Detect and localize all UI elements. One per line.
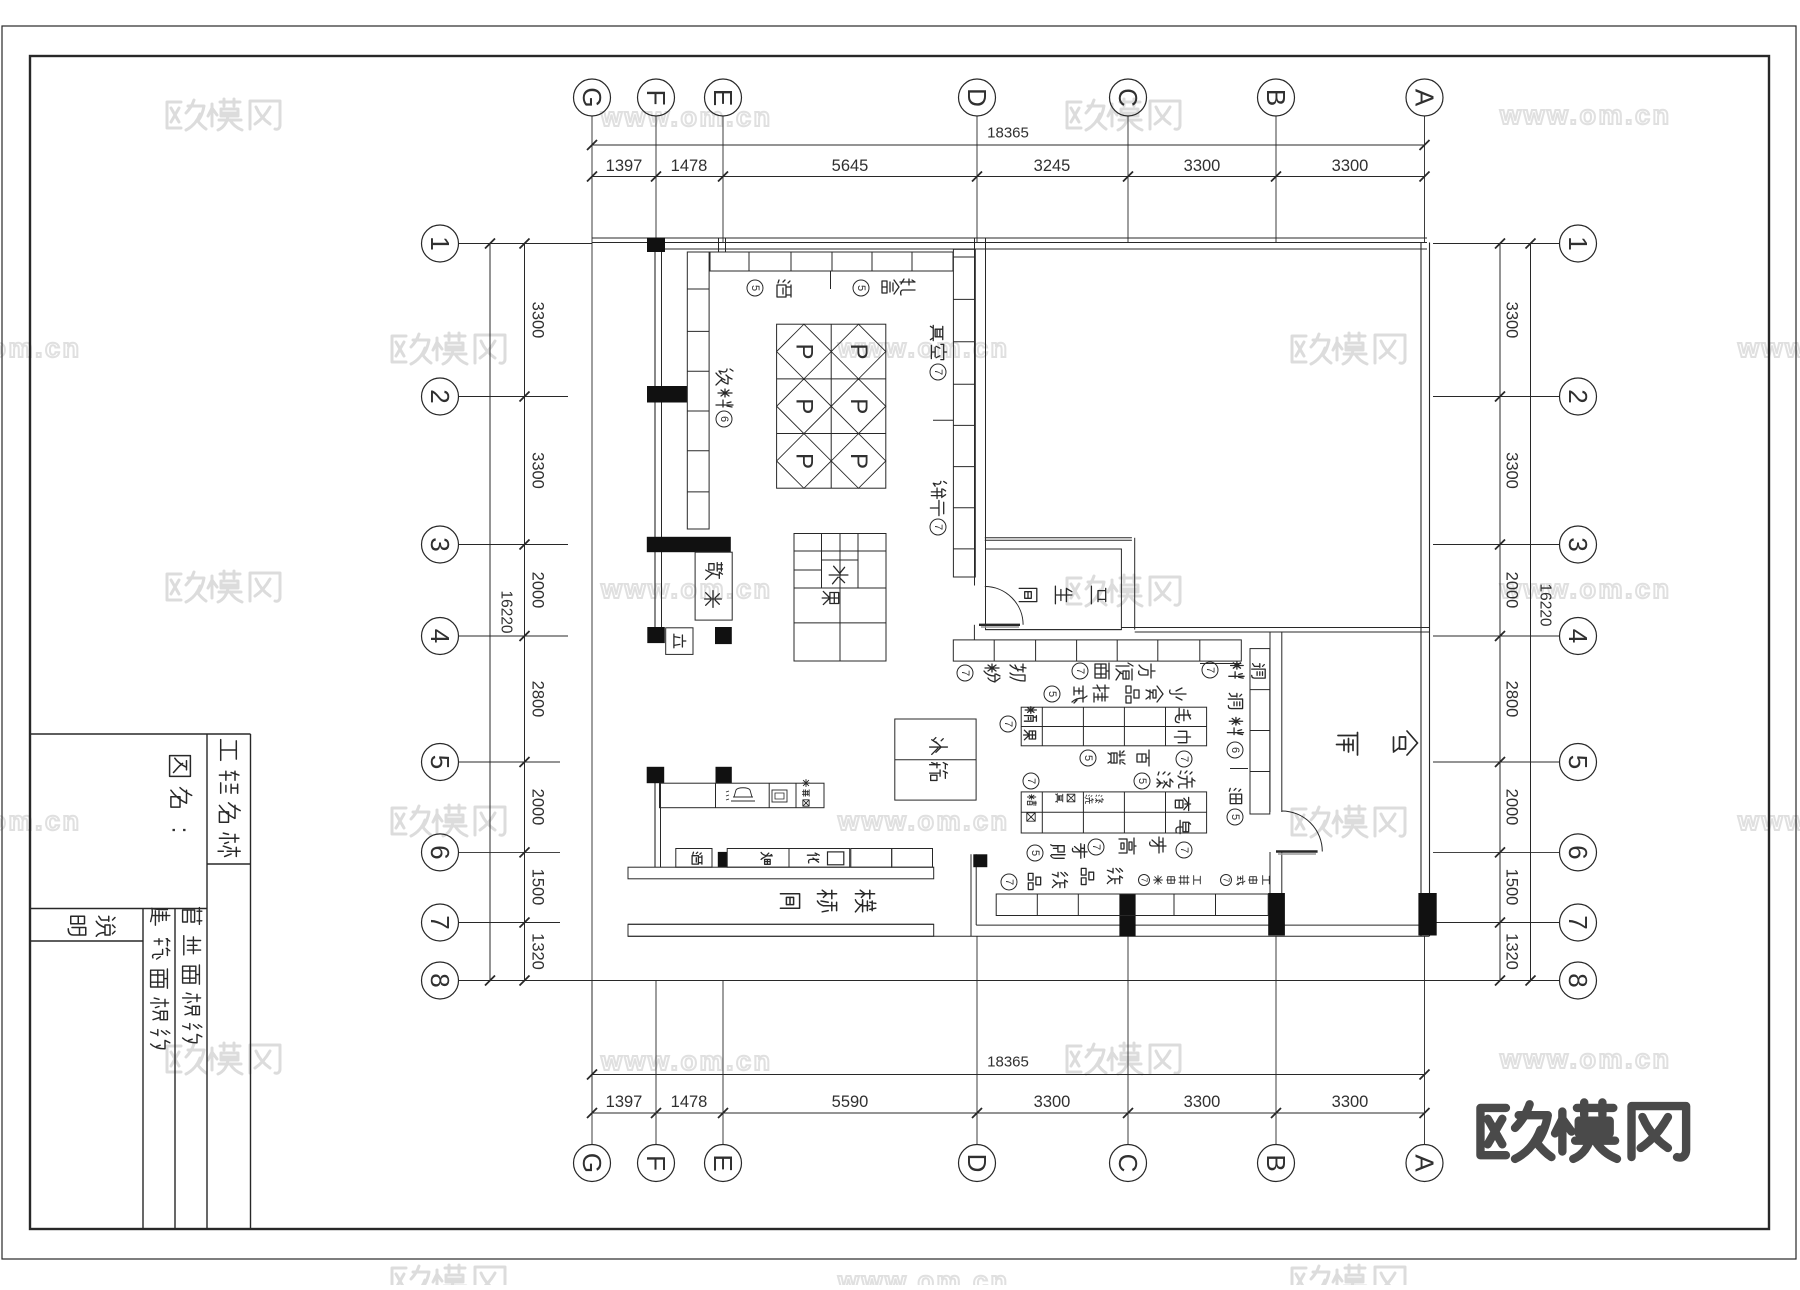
tiny bottom label group 1: [1139, 875, 1150, 886]
svg-text:16220: 16220: [498, 590, 515, 633]
wall at grid D (top-mid vertical): [974, 238, 976, 586]
svg-text:5: 5: [1029, 850, 1041, 856]
svg-text:3300: 3300: [1332, 157, 1369, 175]
svg-text:5645: 5645: [832, 157, 869, 175]
svg-text:4: 4: [425, 629, 455, 643]
svg-text:18365: 18365: [987, 1054, 1029, 1071]
svg-text:1397: 1397: [606, 1093, 643, 1111]
bottom wall upper line left part (stair bar 2 top): [628, 923, 934, 925]
label nai-fen-7: [957, 665, 973, 681]
shuoming cell bottom line: [30, 940, 143, 942]
column at grid A on bottom wall: [1418, 893, 1436, 936]
li box (upright cooler): [666, 628, 693, 655]
separator dash near spice labels: [1230, 768, 1248, 770]
svg-text:6: 6: [425, 845, 455, 859]
watermark row 6 (clipped at page bottom): [392, 1265, 505, 1290]
svg-text:3245: 3245: [1034, 157, 1071, 175]
grid bubble 4 right: [1560, 618, 1597, 655]
column at F grid on top wall: [647, 238, 665, 253]
column pair left at grid 4 - west: [647, 627, 665, 643]
fridge block: [895, 719, 976, 800]
svg-text:3: 3: [425, 537, 455, 551]
label yin-liao-6: [716, 369, 733, 385]
label li-he-5 top: [900, 279, 915, 295]
svg-text:7: 7: [1002, 721, 1014, 727]
bathroom inner bottom line: [985, 629, 1121, 631]
grid bubble 4 left: [422, 618, 459, 655]
extra circled 7 near gondola B: [1023, 773, 1039, 789]
grid bubble G top: [574, 79, 611, 116]
svg-text:2800: 2800: [1503, 681, 1521, 718]
grid bubble B top: [1258, 79, 1295, 116]
svg-text:www.om.cn: www.om.cn: [1499, 1044, 1672, 1074]
grid bubble E bottom: [705, 1145, 742, 1182]
grid line C bottom extension: [1127, 936, 1129, 1144]
svg-text:P: P: [790, 453, 817, 469]
bathroom door swing arc: [985, 587, 1023, 625]
svg-text:1: 1: [425, 236, 455, 250]
label tang-guo-7: [1024, 707, 1036, 721]
label xi-di-5: [1134, 773, 1150, 789]
bathroom door leaf: [979, 624, 1020, 626]
svg-text:C: C: [1113, 1154, 1143, 1173]
title block vertical line x=207: [206, 734, 208, 1229]
counter lower box 3: [851, 849, 892, 868]
svg-text:D: D: [962, 88, 992, 107]
bathroom door jamb step: [973, 625, 975, 640]
svg-text:2000: 2000: [529, 572, 547, 609]
grid line 6 right extension: [1433, 851, 1560, 853]
svg-text:3300: 3300: [1503, 302, 1521, 339]
title text shuo-ming (notes): [96, 916, 115, 936]
svg-text:5: 5: [1563, 755, 1593, 769]
grid line 8 right extension: [1433, 980, 1560, 982]
grid line 3 left extension: [459, 544, 569, 546]
stair step horizontal jog: [976, 924, 996, 926]
label lou-ti-jian (stairwell): [780, 894, 799, 908]
svg-text:7: 7: [1563, 915, 1593, 929]
svg-text:P: P: [790, 398, 817, 414]
label zhi-pin group 2: [1081, 868, 1093, 884]
grid line D top extension: [976, 116, 978, 243]
label xiao-shi-pin: [1126, 686, 1139, 703]
svg-text:3300: 3300: [529, 452, 547, 489]
svg-text:3300: 3300: [1332, 1093, 1369, 1111]
svg-text:5: 5: [1229, 814, 1241, 820]
svg-text:7: 7: [1204, 667, 1216, 673]
shuoming cell top line: [30, 908, 207, 910]
svg-text:1500: 1500: [529, 869, 547, 906]
grid line F top extension: [655, 116, 657, 243]
grid line 3 right extension: [1433, 544, 1560, 546]
svg-text:7: 7: [1090, 844, 1102, 850]
label ya-shua-5: [1027, 845, 1043, 861]
grid bubble 6 left: [422, 834, 459, 871]
counter lower box 1: [676, 849, 712, 868]
label you-5 vertical: [1229, 788, 1241, 803]
grid line 1 left extension: [459, 243, 593, 245]
svg-text:5: 5: [749, 285, 761, 291]
svg-text:P: P: [845, 398, 872, 414]
grid bubble F bottom: [638, 1145, 675, 1182]
tiny labels inside gondola B cells: [1027, 795, 1036, 806]
svg-text:www.om.cn: www.om.cn: [1499, 100, 1672, 130]
svg-text:5: 5: [1082, 755, 1094, 761]
grid line F bottom extension: [655, 980, 657, 1144]
tiny bottom label group 2: [1221, 875, 1232, 886]
mid shelf row below bathroom: [953, 640, 1241, 661]
grid bubble 5 left: [422, 744, 459, 781]
svg-text:2000: 2000: [529, 789, 547, 826]
label bing-gan-7: [931, 481, 946, 498]
stair bar upper: [628, 867, 934, 879]
title block cell line under gongchengmingcheng: [207, 863, 251, 865]
li box label: [674, 634, 686, 648]
grid line 2 left extension: [459, 396, 569, 398]
warehouse left wall upper segment: [1269, 632, 1271, 812]
svg-text:P: P: [790, 344, 817, 360]
bathroom inner wall rectangle: [986, 549, 1122, 630]
svg-text:6: 6: [1563, 845, 1593, 859]
lip line under right end of mid row: [1200, 663, 1241, 665]
svg-text:F: F: [641, 1155, 671, 1171]
svg-text:F: F: [641, 90, 671, 106]
small box icon in counter: [772, 790, 787, 802]
fridge label bing-xiang: [930, 738, 948, 755]
right wall (grid A): [1420, 243, 1422, 937]
title text tu-ming (drawing name): [170, 756, 191, 777]
svg-text:7: 7: [1178, 756, 1190, 762]
grid line 4 left extension: [459, 635, 569, 637]
grid bubble 6 right: [1560, 834, 1597, 871]
top segment dimension line: [592, 176, 1425, 178]
column at grid B on bottom wall: [1268, 893, 1285, 936]
counter lower label yan: [761, 852, 772, 864]
column pair left at grid 4 - east: [715, 627, 732, 644]
column at checkout east: [716, 767, 732, 783]
label fang-bian-mian-7: [1072, 663, 1088, 679]
svg-text:7: 7: [1178, 847, 1190, 853]
gondola block B: [1021, 792, 1206, 833]
svg-text:E: E: [708, 89, 738, 106]
grid line D bottom extension: [976, 936, 978, 1144]
label wei-sheng-jian (bathroom): [1019, 588, 1037, 601]
title text yingye-mianji-yue (business area): [183, 908, 202, 925]
grid bubble 5 right: [1560, 744, 1597, 781]
bathroom right wall outer line: [1134, 538, 1136, 630]
svg-text:4: 4: [1563, 629, 1593, 643]
svg-text:C: C: [1113, 88, 1143, 107]
svg-text:www.om.cn: www.om.cn: [837, 1266, 1010, 1285]
label cang-ku (warehouse): [1337, 733, 1358, 756]
svg-text:5: 5: [855, 285, 867, 291]
top wall inner line: [647, 248, 1427, 250]
grid line 4 right extension: [1433, 635, 1560, 637]
svg-text:www.om.cn: www.om.cn: [0, 333, 82, 363]
grid bubble A top: [1406, 79, 1443, 116]
svg-text:A: A: [1410, 1154, 1440, 1172]
svg-text:E: E: [708, 1154, 738, 1171]
stair bar lower: [628, 924, 934, 936]
grid 8 long horizontal line: [459, 980, 1531, 982]
svg-text:7: 7: [1025, 778, 1037, 784]
svg-text:2000: 2000: [1503, 572, 1521, 609]
svg-text:1: 1: [1563, 236, 1593, 250]
grid bubble A bottom: [1406, 1145, 1443, 1182]
svg-text:B: B: [1261, 1154, 1291, 1171]
column at checkout west: [647, 767, 665, 783]
svg-text:5590: 5590: [832, 1093, 869, 1111]
left segment dimension line: [524, 244, 526, 981]
svg-text:7: 7: [1003, 879, 1015, 885]
grid line B bottom extension: [1275, 936, 1277, 1144]
svg-text:1320: 1320: [529, 933, 547, 970]
svg-text:7: 7: [932, 524, 944, 530]
grid bubble 7 right: [1560, 904, 1597, 941]
gondola block A: [1021, 707, 1206, 746]
watermark row 3: [167, 571, 280, 602]
grid bubble E top: [705, 79, 742, 116]
svg-text:www.om.cn: www.om.cn: [837, 806, 1010, 836]
grid line 6 left extension: [459, 851, 561, 853]
bottom shelf row (paper goods): [996, 894, 1268, 916]
grid bubble 3 right: [1560, 526, 1597, 563]
grid line E top extension: [722, 116, 724, 243]
top wall middle line: [592, 242, 1427, 244]
column at stair step: [973, 854, 987, 867]
top wall outer line: [592, 237, 1427, 239]
grid G long vertical line: [591, 243, 593, 1113]
svg-text:7: 7: [932, 369, 944, 375]
svg-text:G: G: [577, 1153, 607, 1173]
svg-text:8: 8: [425, 973, 455, 987]
svg-text:2: 2: [1563, 389, 1593, 403]
short divider drop at top shelf: [830, 271, 832, 289]
svg-text:P: P: [845, 344, 872, 360]
bottom total dimension line 18365: [592, 1074, 1425, 1076]
grid line E bottom extension: [722, 980, 724, 1144]
grid line A bottom extension: [1424, 936, 1426, 1144]
watermark row 1: [167, 99, 280, 130]
title block vertical line x=143: [142, 909, 144, 1230]
right total dimension line 16220: [1530, 244, 1532, 981]
svg-text:3300: 3300: [1184, 157, 1221, 175]
counter lower box 4: [892, 849, 933, 868]
small column in counter row: [718, 852, 727, 867]
stair step wall at grid D: [970, 854, 972, 936]
label tiao-liao-7 horizontal: [1202, 662, 1218, 678]
grid bubble 8 right: [1560, 962, 1597, 999]
grid line G bottom extension: [591, 980, 593, 1144]
svg-text:P: P: [845, 453, 872, 469]
top total dimension line 18365: [592, 144, 1425, 146]
grid bubble 8 left: [422, 962, 459, 999]
svg-text:3300: 3300: [1034, 1093, 1071, 1111]
svg-text:7: 7: [1222, 878, 1231, 883]
svg-text:5: 5: [1136, 778, 1148, 784]
grid line B top extension: [1275, 116, 1277, 243]
svg-text:3: 3: [1563, 537, 1593, 551]
label zhen-kong-7: [930, 325, 942, 340]
svg-text:6: 6: [718, 416, 730, 422]
svg-text:7: 7: [1074, 668, 1086, 674]
tiny vertical text on counter: [802, 779, 809, 786]
svg-text:www.om.cn: www.om.cn: [600, 574, 773, 604]
grid bubble F top: [638, 79, 675, 116]
grid line 7 right extension: [1433, 922, 1560, 924]
title block top line: [30, 733, 251, 735]
svg-text:www.om.cn: www.om.cn: [0, 806, 82, 836]
counter lower box 2: [727, 849, 850, 868]
svg-text:16220: 16220: [1537, 583, 1554, 626]
warehouse top wall: [1121, 627, 1429, 629]
svg-text:A: A: [1410, 89, 1440, 107]
title block vertical line x=175: [174, 909, 176, 1230]
grid bubble C bottom: [1110, 1145, 1147, 1182]
grid bubble G bottom: [574, 1145, 611, 1182]
grid bubble 1 right: [1560, 225, 1597, 262]
grid bubble 2 left: [422, 378, 459, 415]
grid line C top extension: [1127, 116, 1129, 243]
right segment dimension line: [1499, 244, 1501, 981]
svg-text:7: 7: [1140, 878, 1149, 883]
small square box in counter: [828, 852, 844, 865]
counter lower label hua: [807, 853, 819, 863]
left shelf strip along F wall: [687, 252, 709, 529]
left wall (grid F) lower segment: [654, 783, 656, 867]
grid bubble B bottom: [1258, 1145, 1295, 1182]
watermark row 5: [167, 1043, 280, 1074]
grid line A top extension: [1424, 116, 1426, 243]
grid line 2 right extension: [1433, 396, 1560, 398]
bottom wall of plan (south): [996, 924, 1430, 926]
svg-text:5: 5: [1046, 691, 1058, 697]
column on left wall at grid 2: [647, 386, 687, 403]
svg-text:G: G: [577, 87, 607, 107]
svg-text:B: B: [1261, 89, 1291, 106]
label ya-gao-7: [1088, 839, 1104, 855]
grid line G top extension: [591, 116, 593, 243]
stair bar 2 left cap: [627, 924, 629, 936]
column at grid C on bottom wall: [1119, 894, 1135, 936]
label mao-jin-7: [1175, 708, 1190, 722]
svg-text:2000: 2000: [1503, 789, 1521, 826]
svg-text:www.om.cn: www.om.cn: [600, 1046, 773, 1076]
svg-text:8: 8: [1563, 973, 1593, 987]
left wall (grid F) upper segment: [654, 243, 656, 644]
bulk rice label san-mi: [706, 563, 723, 580]
grid line 1 right extension: [1433, 243, 1560, 245]
label gua-shi-5: [1044, 686, 1060, 702]
svg-text:1478: 1478: [671, 157, 708, 175]
label jiu-5 top: [777, 280, 791, 297]
fruit label shui-guo: [829, 566, 848, 584]
bathroom top wall: [985, 537, 1132, 539]
shelf strip along D wall: [953, 249, 975, 577]
svg-text:18365: 18365: [987, 125, 1029, 142]
warehouse left wall lower segment: [1269, 852, 1271, 894]
warehouse door swing arc: [1282, 811, 1323, 852]
svg-text:7: 7: [425, 915, 455, 929]
grid E wall junction marks: [718, 238, 720, 252]
fruit block: [794, 534, 886, 662]
grid bubble D bottom: [959, 1145, 996, 1182]
svg-text:D: D: [962, 1154, 992, 1173]
title text gong-cheng-ming-cheng (project name): [221, 740, 237, 761]
warehouse door leaf: [1276, 850, 1318, 852]
top shelf row along north wall: [710, 252, 953, 271]
checkout counter upper: [660, 783, 825, 808]
pallet block (P block): [777, 324, 886, 488]
svg-text:www.om.cn: www.om.cn: [1499, 574, 1672, 604]
grid line 7 left extension: [459, 922, 561, 924]
svg-text:1478: 1478: [671, 1093, 708, 1111]
grid line 8 left extension: [459, 980, 561, 982]
svg-text:www.om.cn: www.om.cn: [600, 102, 773, 132]
svg-text:3300: 3300: [1503, 452, 1521, 489]
grid bubble 7 left: [422, 904, 459, 941]
grid bubble 2 right: [1560, 378, 1597, 415]
grid line 5 left extension: [459, 761, 561, 763]
svg-text:2: 2: [425, 389, 455, 403]
svg-text:1500: 1500: [1503, 869, 1521, 906]
svg-text:3300: 3300: [1184, 1093, 1221, 1111]
label xiang-zao-7: [1175, 797, 1190, 810]
site logo om-wang large: [1480, 1102, 1686, 1158]
counter lower label jiu: [692, 852, 702, 864]
label bai-huo-5: [1080, 750, 1096, 766]
svg-text:6: 6: [1229, 747, 1241, 753]
svg-text:3300: 3300: [529, 302, 547, 339]
grid bubble 3 left: [422, 526, 459, 563]
left total dimension line 16220: [489, 244, 491, 981]
tick line left of D strip: [933, 419, 953, 421]
svg-text:1397: 1397: [606, 157, 643, 175]
svg-text::: :: [167, 827, 194, 834]
svg-text:5: 5: [425, 755, 455, 769]
grid bubble C top: [1110, 79, 1147, 116]
grid bubble 1 left: [422, 225, 459, 262]
label zhi-pin-7 group 1: [1001, 874, 1017, 890]
bottom segment dimension line: [592, 1112, 1425, 1114]
title block vertical line x=250: [250, 734, 252, 1229]
bulk rice box: [695, 552, 732, 620]
svg-text:1320: 1320: [1503, 933, 1521, 970]
grid line 5 right extension: [1433, 761, 1560, 763]
column bar on left wall at grid 3: [647, 537, 731, 552]
grid bubble D top: [959, 79, 996, 116]
label tiao-liao-6 vertical: [1228, 693, 1242, 708]
cash register icon: [726, 788, 755, 801]
spice strip (vertical): [1250, 649, 1270, 814]
svg-text:7: 7: [959, 670, 971, 676]
svg-text:2800: 2800: [529, 681, 547, 718]
title text jianzhu-mianji-yue (building area): [151, 908, 170, 925]
